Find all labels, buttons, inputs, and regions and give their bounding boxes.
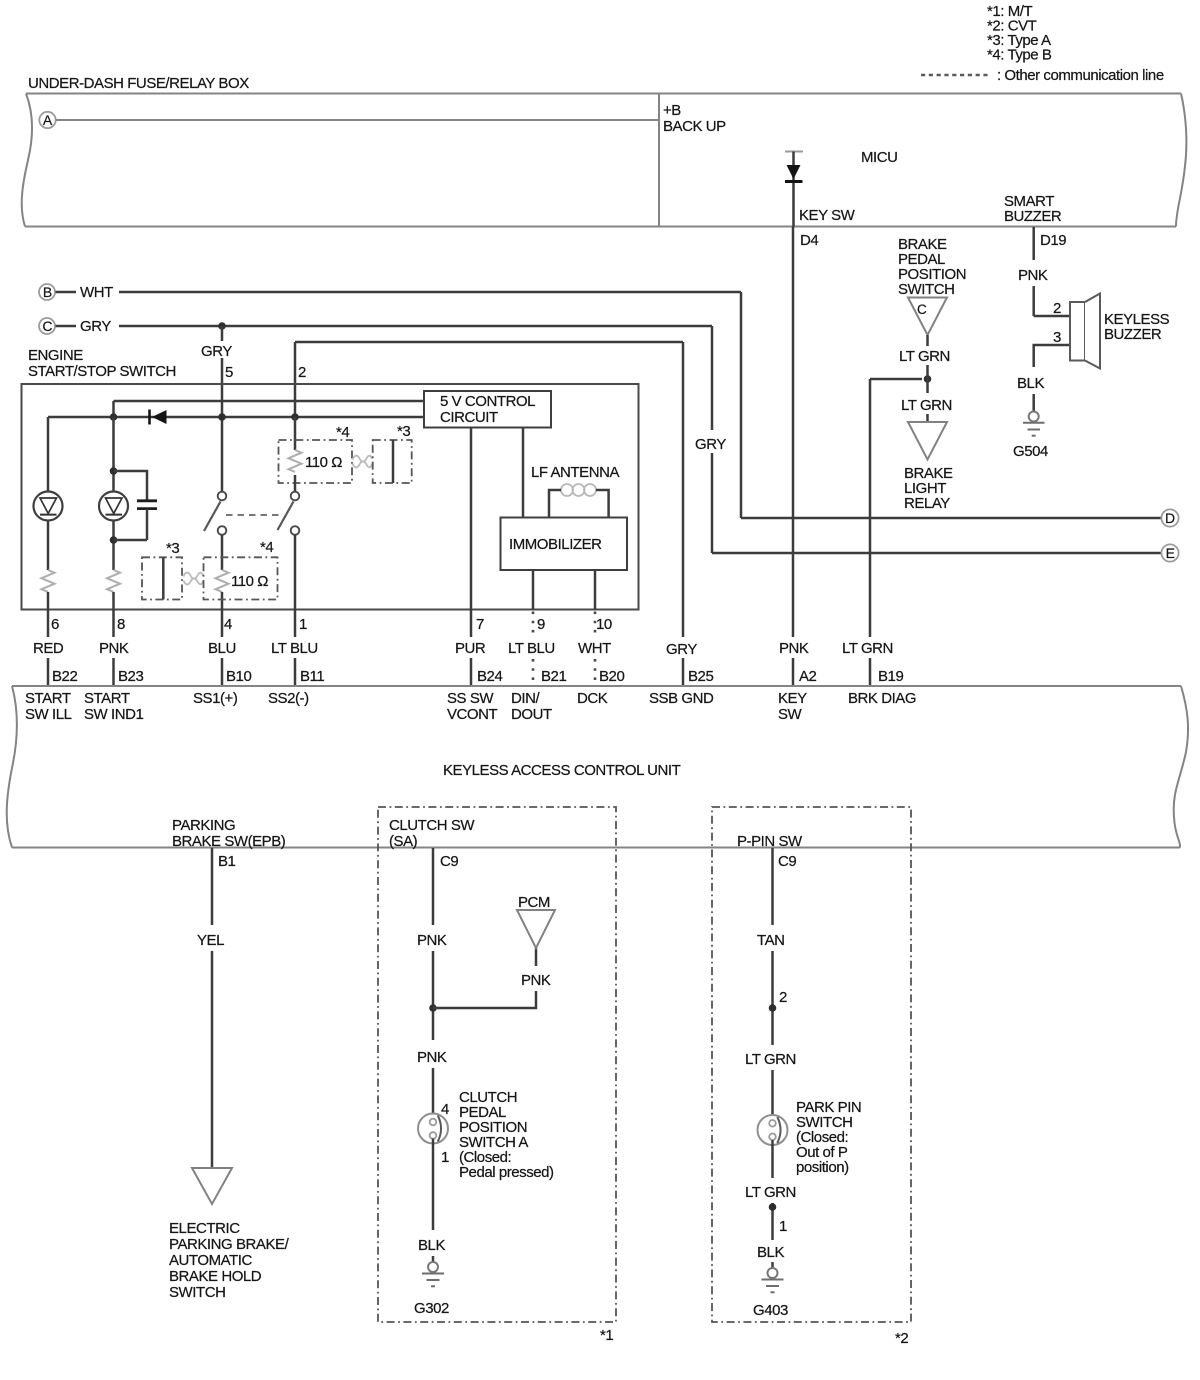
svg-text:B25: B25	[688, 668, 713, 685]
engine start/stop switch box	[22, 384, 639, 610]
wire antenna right leg	[596, 490, 609, 518]
svg-text:SS1(+): SS1(+)	[193, 690, 238, 707]
svg-text:LT BLU: LT BLU	[271, 640, 318, 657]
svg-text:PNK: PNK	[99, 640, 129, 657]
brake pedal position switch triangle C	[908, 298, 947, 336]
wire buzzer pin 3	[1034, 345, 1070, 367]
node E	[1161, 544, 1178, 561]
svg-text:*3: *3	[166, 540, 179, 557]
keyless buzzer speaker symbol	[1070, 294, 1100, 369]
junction bus/LED2	[110, 413, 118, 421]
wire immobilizer to pin 10	[594, 570, 597, 610]
wire bus upper to 5V control	[114, 400, 425, 403]
svg-text:B21: B21	[541, 668, 566, 685]
immobilizer block	[501, 518, 628, 571]
junction LED2/capacitor top	[110, 467, 118, 475]
svg-text:5: 5	[225, 364, 233, 381]
lower *3 phantom box	[142, 540, 182, 600]
svg-text:A: A	[43, 112, 53, 128]
svg-text:BUZZER: BUZZER	[1104, 326, 1162, 343]
switch SW1 upper contact	[218, 492, 227, 501]
clutch pedal position switch A symbol	[418, 1114, 448, 1144]
wire resistor to pin 4	[221, 592, 224, 637]
svg-text:PNK: PNK	[417, 932, 447, 949]
5 V control circuit block	[424, 391, 551, 428]
svg-text:BLU: BLU	[208, 640, 236, 657]
wire LED2 to resistor	[112, 521, 115, 571]
resistor below LED2	[107, 570, 120, 592]
switch SW1 blade	[204, 502, 221, 532]
resistor 110 ohm lower (in *4 box)	[216, 570, 229, 592]
svg-text:B10: B10	[226, 668, 251, 685]
svg-text:SS SW: SS SW	[447, 690, 494, 707]
wire LED2 branch	[112, 417, 115, 492]
svg-text:7: 7	[476, 616, 484, 633]
svg-text:LT GRN: LT GRN	[899, 348, 950, 365]
svg-text:SW IND1: SW IND1	[84, 706, 143, 723]
legend dashed sample: other communication line	[921, 74, 990, 77]
wire pin2 up over to SSB GND	[295, 341, 683, 344]
svg-text:*1: *1	[600, 1327, 613, 1344]
svg-text:PUR: PUR	[455, 640, 486, 657]
lower *4 dashed box	[204, 539, 278, 600]
svg-text:*3: *3	[397, 423, 410, 440]
svg-text:KEYLESS ACCESS CONTROL UNIT: KEYLESS ACCESS CONTROL UNIT	[443, 762, 681, 779]
svg-text:B23: B23	[118, 668, 143, 685]
svg-text:B: B	[43, 284, 52, 300]
junction LT GRN branch	[924, 375, 932, 383]
svg-text:CIRCUIT: CIRCUIT	[440, 409, 498, 426]
node D	[1161, 509, 1178, 526]
svg-text:Pedal pressed): Pedal pressed)	[459, 1164, 554, 1181]
LED1 (start sw illumination)	[34, 492, 63, 521]
wire SW2 to pin 1	[294, 535, 297, 637]
LED2 (start sw indicator)	[99, 492, 128, 521]
switch SW2 upper contact	[291, 492, 300, 501]
svg-text:UNDER-DASH FUSE/RELAY BOX: UNDER-DASH FUSE/RELAY BOX	[28, 75, 249, 92]
svg-text:D: D	[1165, 510, 1175, 526]
svg-text:START: START	[25, 690, 71, 707]
svg-text:G504: G504	[1013, 443, 1048, 460]
switch SW1 lower contact	[218, 526, 227, 535]
svg-text:PNK: PNK	[417, 1049, 447, 1066]
svg-text:CLUTCH SW: CLUTCH SW	[389, 817, 475, 834]
svg-text:(SA): (SA)	[389, 833, 418, 850]
svg-text:+B: +B	[663, 102, 681, 119]
lower coupler symbol	[184, 573, 204, 585]
svg-text:4: 4	[224, 616, 232, 633]
svg-text:G302: G302	[414, 1300, 449, 1317]
svg-text:C: C	[917, 302, 927, 317]
capacitor C across LED2	[114, 471, 158, 540]
svg-text:TAN: TAN	[757, 932, 785, 949]
svg-text:3: 3	[1053, 329, 1061, 346]
svg-text:BRAKE HOLD: BRAKE HOLD	[169, 1268, 262, 1285]
svg-text:PCM: PCM	[518, 894, 550, 911]
fuse box / MICU divider	[658, 94, 660, 227]
PCM triangle	[517, 910, 555, 948]
wire resistor to pin 6	[47, 592, 50, 637]
svg-text:PNK: PNK	[779, 640, 809, 657]
wire LT GRN below park pin switch	[771, 1140, 774, 1178]
dotted comm line pin 9 to B21	[532, 612, 535, 639]
svg-text:YEL: YEL	[197, 932, 224, 949]
svg-text:C9: C9	[440, 853, 458, 870]
svg-text:KEY: KEY	[778, 690, 807, 707]
wire B down to D	[740, 292, 743, 518]
svg-text:9: 9	[537, 616, 545, 633]
svg-text:*4: *4	[260, 539, 273, 556]
svg-text:2: 2	[1053, 300, 1061, 317]
svg-text:WHT: WHT	[80, 284, 113, 301]
svg-text:1: 1	[779, 1218, 787, 1235]
wire immobilizer to pin 9	[532, 570, 535, 610]
svg-text:RELAY: RELAY	[904, 495, 950, 512]
svg-text:DOUT: DOUT	[511, 706, 552, 723]
svg-text:LT BLU: LT BLU	[508, 640, 555, 657]
wire C GRY	[56, 325, 77, 328]
LF antenna coil	[561, 484, 596, 496]
wire B WHT	[56, 291, 77, 294]
svg-text:GRY: GRY	[80, 318, 111, 335]
svg-text:START/STOP SWITCH: START/STOP SWITCH	[28, 363, 176, 380]
svg-text:4: 4	[441, 1101, 449, 1118]
svg-text:B1: B1	[218, 853, 236, 870]
dotted comm line pin 10 to B20	[594, 612, 597, 639]
svg-text:BLK: BLK	[757, 1244, 784, 1261]
svg-text:PARKING: PARKING	[172, 817, 235, 834]
svg-text:B22: B22	[52, 668, 77, 685]
junction bus/pin5	[218, 413, 226, 421]
svg-text:B11: B11	[300, 668, 324, 685]
svg-text:8: 8	[117, 616, 125, 633]
svg-text:AUTOMATIC: AUTOMATIC	[169, 1252, 253, 1269]
wire GRY drop to switch pin 5	[221, 326, 224, 341]
svg-text:1: 1	[441, 1149, 449, 1166]
svg-text:B24: B24	[477, 668, 502, 685]
svg-text:P-PIN SW: P-PIN SW	[737, 833, 803, 850]
svg-text:KEY SW: KEY SW	[799, 207, 856, 224]
wire KEY SW D4 down to A2	[792, 227, 795, 637]
svg-text:C: C	[42, 318, 52, 334]
svg-text:SW ILL: SW ILL	[25, 706, 72, 723]
wire B1 parking brake YEL	[211, 848, 214, 925]
svg-text:5 V CONTROL: 5 V CONTROL	[440, 393, 535, 410]
svg-text:E: E	[1166, 545, 1175, 561]
svg-text:LT GRN: LT GRN	[901, 397, 952, 414]
node C	[39, 318, 55, 334]
svg-text:ENGINE: ENGINE	[28, 347, 83, 364]
svg-text:C9: C9	[778, 853, 796, 870]
ground G302	[422, 1262, 444, 1286]
svg-text:PNK: PNK	[521, 972, 551, 989]
svg-text:VCONT: VCONT	[447, 706, 498, 723]
svg-text:6: 6	[51, 616, 59, 633]
junction on C line	[218, 322, 226, 330]
svg-text:START: START	[84, 690, 130, 707]
svg-text:RED: RED	[33, 640, 64, 657]
keyless access control unit box	[12, 685, 1181, 687]
svg-text:PNK: PNK	[1018, 267, 1048, 284]
svg-text:BLK: BLK	[1017, 375, 1044, 392]
switch SW2 blade	[278, 502, 294, 531]
junction LED2/capacitor bottom	[110, 536, 118, 544]
upper *4 dashed box	[279, 424, 353, 483]
wire resistor to SW2	[294, 475, 297, 492]
svg-text:GRY: GRY	[201, 343, 232, 360]
wire antenna left leg	[549, 490, 561, 518]
junction bus/pin2	[291, 413, 299, 421]
wire LT GRN from brake pedal switch	[926, 335, 929, 346]
upper coupler symbol	[353, 456, 373, 468]
park pin switch symbol	[758, 1115, 788, 1145]
svg-text:2: 2	[298, 364, 306, 381]
wire BRK DIAG branch from brake pedal switch	[870, 378, 922, 381]
diode D in MICU key sw line	[785, 152, 803, 228]
svg-text:SS2(-): SS2(-)	[268, 690, 309, 707]
node B	[39, 284, 55, 300]
svg-text:SW: SW	[778, 706, 803, 723]
junction PCM branch	[429, 1004, 437, 1012]
svg-text:D4: D4	[800, 232, 818, 249]
EPB switch arrow triangle	[192, 1168, 232, 1204]
wire resistor to pin 8	[112, 592, 115, 637]
svg-text:WHT: WHT	[578, 640, 611, 657]
svg-text:110 Ω: 110 Ω	[231, 573, 268, 590]
svg-text:: Other communication line: : Other communication line	[997, 67, 1164, 84]
clutch sw dashed box	[378, 807, 616, 1322]
wire BLK to G302	[432, 1139, 435, 1231]
svg-text:BACK UP: BACK UP	[663, 118, 726, 135]
junction pin 1	[769, 1203, 777, 1211]
svg-text:SWITCH: SWITCH	[898, 281, 954, 298]
p-pin sw dashed box	[712, 807, 911, 1322]
under-dash fuse/relay box + MICU outline	[26, 93, 1181, 95]
svg-text:2: 2	[779, 989, 787, 1006]
ground G403	[762, 1268, 784, 1292]
svg-text:G403: G403	[753, 1302, 788, 1319]
wire LED1 branch	[47, 417, 50, 492]
svg-text:D19: D19	[1040, 232, 1066, 249]
svg-text:110 Ω: 110 Ω	[305, 454, 342, 471]
wire A to +B BACK UP	[56, 119, 659, 121]
switch SW2 lower contact	[291, 526, 300, 535]
resistor below LED1	[42, 570, 55, 592]
svg-text:SSB GND: SSB GND	[649, 690, 714, 707]
svg-text:BUZZER: BUZZER	[1004, 208, 1062, 225]
svg-text:DCK: DCK	[577, 690, 608, 707]
svg-text:position): position)	[796, 1159, 849, 1176]
svg-text:BRAKE SW(EPB): BRAKE SW(EPB)	[172, 833, 286, 850]
svg-text:DIN/: DIN/	[511, 690, 540, 707]
svg-text:LT GRN: LT GRN	[842, 640, 893, 657]
ground G504	[1023, 412, 1045, 436]
upper *3 phantom box	[373, 423, 412, 483]
svg-text:MICU: MICU	[861, 149, 898, 166]
junction pin 2	[769, 1004, 777, 1012]
svg-text:ELECTRIC: ELECTRIC	[169, 1220, 240, 1237]
wire C down to E with GRY label	[711, 326, 714, 430]
wire bus lower to 5V control	[48, 416, 424, 419]
wire smart buzzer D19 PNK	[1032, 227, 1035, 260]
svg-text:*4: *4	[336, 424, 349, 441]
svg-text:1: 1	[299, 616, 307, 633]
wire C9 clutch PNK	[432, 848, 435, 925]
wire pin2 resistor upper	[294, 417, 297, 450]
mechanical linkage dashed	[226, 514, 279, 516]
svg-text:LF ANTENNA: LF ANTENNA	[531, 464, 619, 481]
node A	[39, 112, 55, 128]
wire 5V control to immobilizer	[522, 428, 525, 518]
svg-text:GRY: GRY	[666, 641, 697, 658]
resistor 110 ohm upper (in *4 box)	[289, 450, 302, 472]
svg-text:GRY: GRY	[695, 436, 726, 453]
svg-text:BRK DIAG: BRK DIAG	[848, 690, 916, 707]
svg-text:LT GRN: LT GRN	[745, 1051, 796, 1068]
wire SW1 to resistor *4	[221, 535, 224, 570]
svg-text:PARKING BRAKE/: PARKING BRAKE/	[169, 1236, 290, 1253]
svg-text:LT GRN: LT GRN	[745, 1184, 796, 1201]
svg-text:IMMOBILIZER: IMMOBILIZER	[509, 536, 602, 553]
svg-text:SWITCH: SWITCH	[169, 1284, 225, 1301]
svg-text:A2: A2	[799, 668, 817, 685]
brake light relay triangle	[908, 422, 947, 460]
svg-text:*2: *2	[895, 1330, 908, 1347]
diode on bus (pointing left)	[150, 410, 167, 425]
wire to buzzer pin 2	[1034, 315, 1070, 318]
svg-text:B19: B19	[878, 668, 903, 685]
svg-text:10: 10	[596, 616, 612, 633]
wire PCM branch	[433, 991, 536, 1008]
wire LED1 to resistor	[47, 521, 50, 571]
svg-text:*4: Type B: *4: Type B	[987, 47, 1052, 64]
wire C9 p-pin TAN	[771, 848, 774, 925]
wire 5V control to pin 7	[470, 428, 473, 638]
svg-text:BLK: BLK	[418, 1237, 445, 1254]
svg-text:B20: B20	[599, 668, 624, 685]
